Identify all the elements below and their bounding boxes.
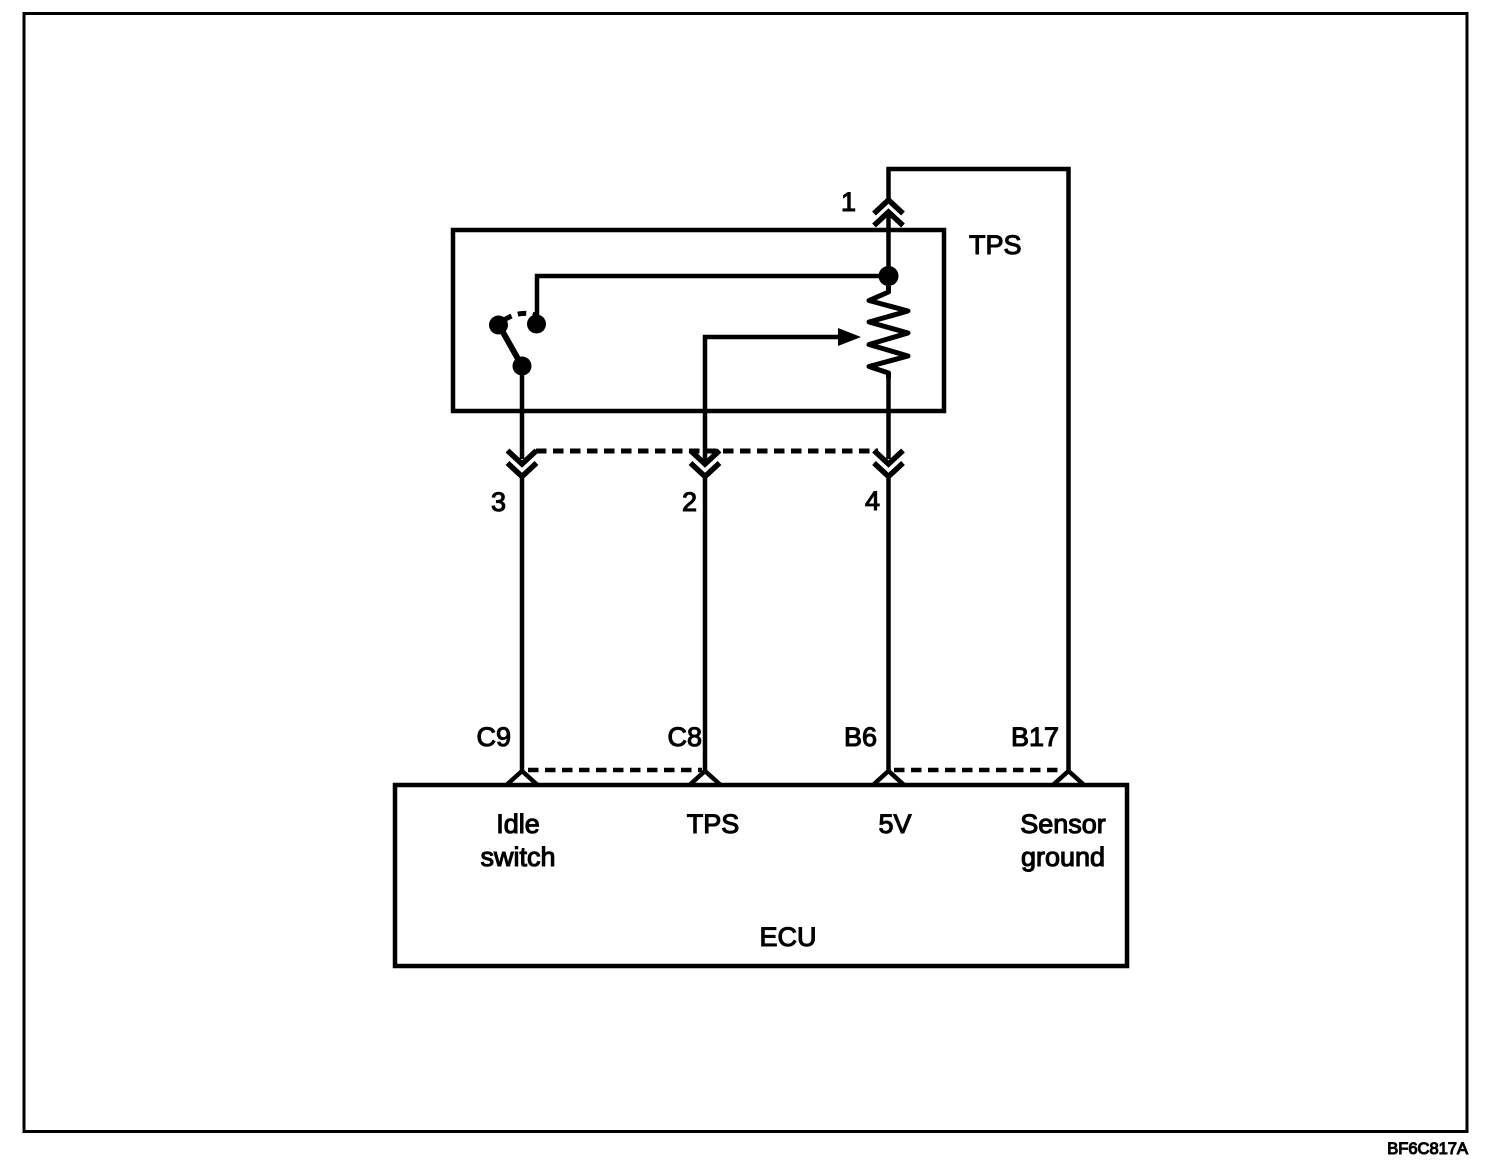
svg-text:ground: ground	[1021, 842, 1105, 872]
terminal C9 triangle	[507, 771, 537, 785]
terminal B17 label	[1011, 722, 1059, 752]
svg-text:5V: 5V	[878, 809, 911, 839]
TPS label	[969, 230, 1022, 260]
switch lever	[500, 327, 522, 366]
svg-text:4: 4	[865, 486, 880, 516]
wire switch pole down to pin 3	[520, 369, 525, 459]
switch actuation dashed arc	[504, 313, 535, 320]
terminal B6 triangle	[874, 771, 904, 785]
svg-text:TPS: TPS	[687, 809, 740, 839]
ECU label	[759, 922, 816, 952]
pin number 1 label	[841, 187, 856, 217]
wire pin 3 down to ECU C9	[520, 476, 525, 772]
net label Idle switch	[480, 809, 555, 872]
svg-text:B17: B17	[1011, 722, 1059, 752]
wire junction to switch corner	[537, 276, 889, 320]
pin 1 connector chevrons	[874, 200, 903, 226]
svg-text:C8: C8	[667, 722, 702, 752]
terminal B17 triangle	[1054, 771, 1084, 785]
pin 2 connector chevrons	[691, 451, 720, 477]
net label TPS (ECU pin)	[687, 809, 740, 839]
net label 5V	[878, 809, 911, 839]
potentiometer resistor zigzag	[869, 286, 908, 378]
terminal C9 label	[476, 722, 511, 752]
ECU connector dashed line C9-C8	[528, 768, 702, 773]
wire pin 4 down to ECU B6	[886, 476, 891, 772]
svg-text:1: 1	[841, 187, 856, 217]
svg-text:switch: switch	[480, 842, 555, 872]
svg-text:TPS: TPS	[969, 230, 1022, 260]
pin 3 connector chevrons	[508, 451, 537, 477]
terminal C8 triangle	[690, 771, 720, 785]
ECU connector dashed line B6-B17	[894, 768, 1064, 773]
svg-text:3: 3	[491, 487, 506, 517]
switch fixed contact (right dot)	[527, 315, 546, 334]
wire resistor bottom to pin 4	[886, 376, 891, 459]
ECU box	[395, 785, 1127, 966]
pin number 4 label	[865, 486, 880, 516]
svg-text:ECU: ECU	[759, 922, 816, 952]
wire pin1 top to sensor-ground run (right side down to B17)	[889, 169, 1069, 772]
svg-text:Sensor: Sensor	[1020, 809, 1106, 839]
TPS connector dashed line	[536, 449, 878, 454]
switch pole contact (lower dot)	[513, 357, 532, 376]
wiper arrow wire	[705, 337, 840, 460]
pin 4 connector chevrons	[874, 451, 903, 477]
wire pin1 chevron down to junction	[886, 212, 891, 280]
svg-text:2: 2	[682, 487, 697, 517]
wiper arrowhead	[838, 328, 861, 346]
switch fixed contact (left dot)	[489, 316, 508, 335]
svg-text:Idle: Idle	[496, 809, 540, 839]
TPS box	[453, 230, 944, 411]
pin number 2 label	[682, 487, 697, 517]
terminal B6 label	[844, 722, 877, 752]
net label Sensor ground	[1020, 809, 1106, 872]
pin number 3 label	[491, 487, 506, 517]
svg-text:BF6C817A: BF6C817A	[1387, 1140, 1468, 1158]
wire pin 2 down to ECU C8	[703, 476, 708, 772]
node junction dot on 5V line	[879, 266, 899, 286]
terminal C8 label	[667, 722, 702, 752]
svg-text:C9: C9	[476, 722, 511, 752]
figure code BF6C817A	[1387, 1140, 1468, 1158]
svg-text:B6: B6	[844, 722, 877, 752]
